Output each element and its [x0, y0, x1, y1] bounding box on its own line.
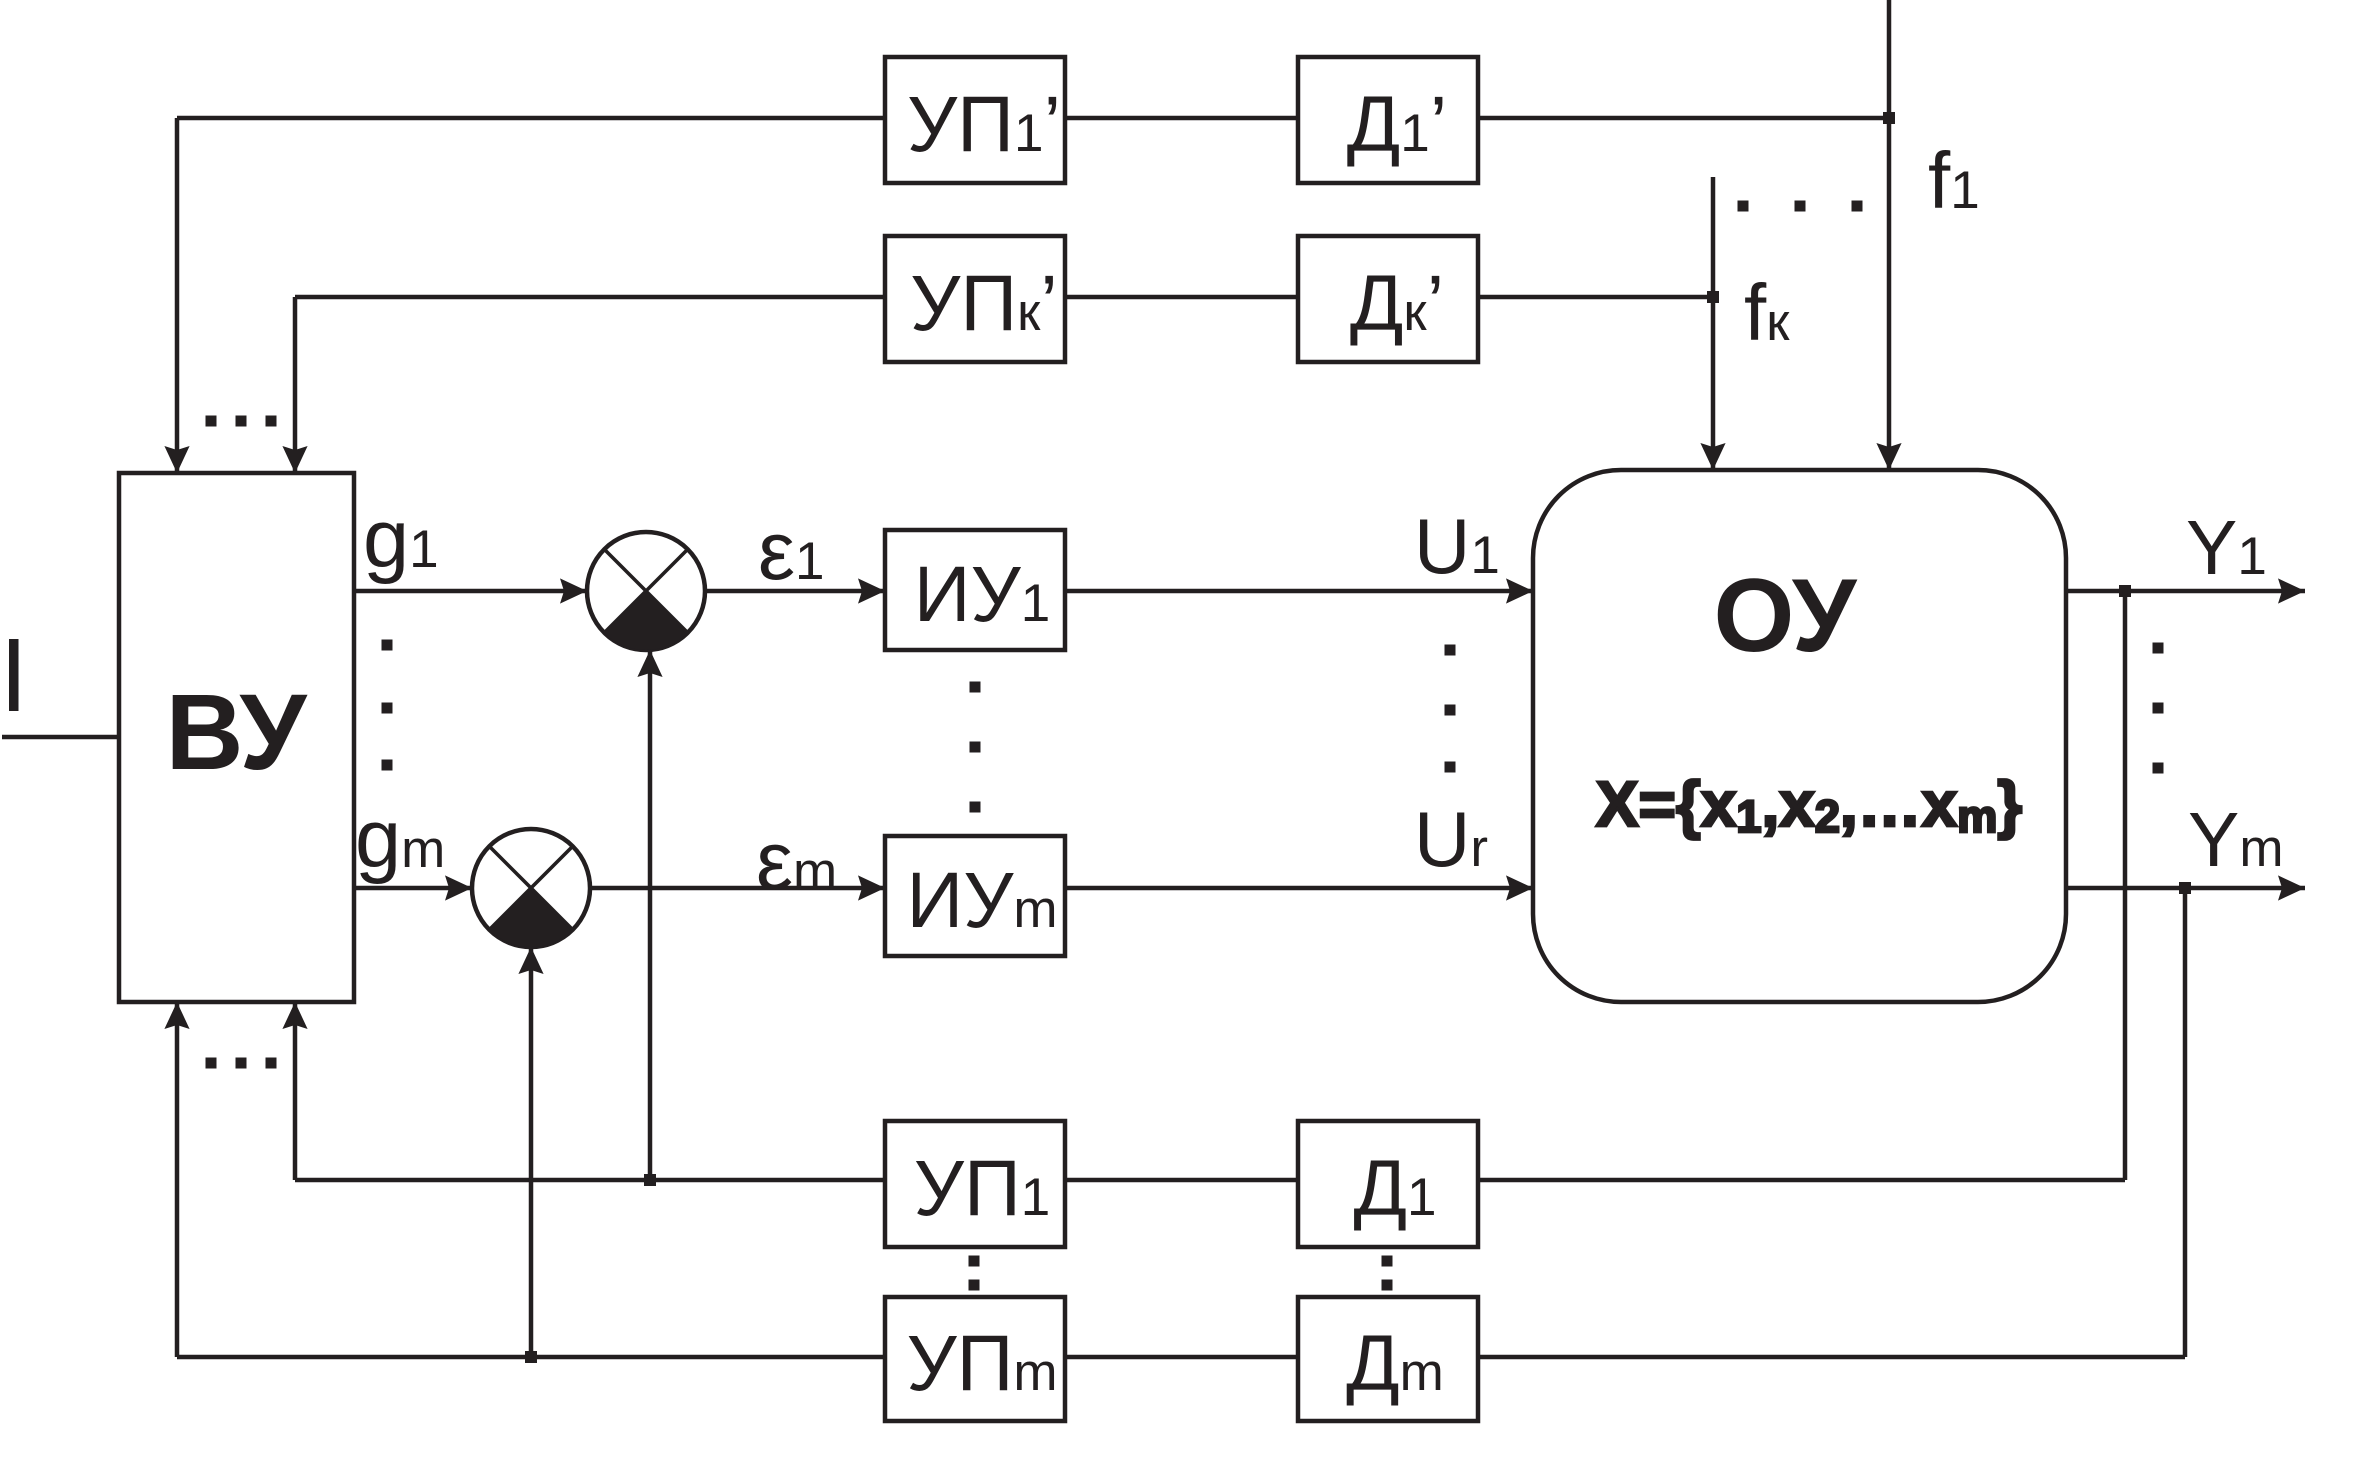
svg-text:ВУ: ВУ	[165, 671, 308, 792]
svg-text:ОУ: ОУ	[1714, 558, 1858, 674]
svg-text:Дк’: Дк’	[1350, 258, 1444, 347]
svg-text:Д1’: Д1’	[1347, 79, 1448, 168]
